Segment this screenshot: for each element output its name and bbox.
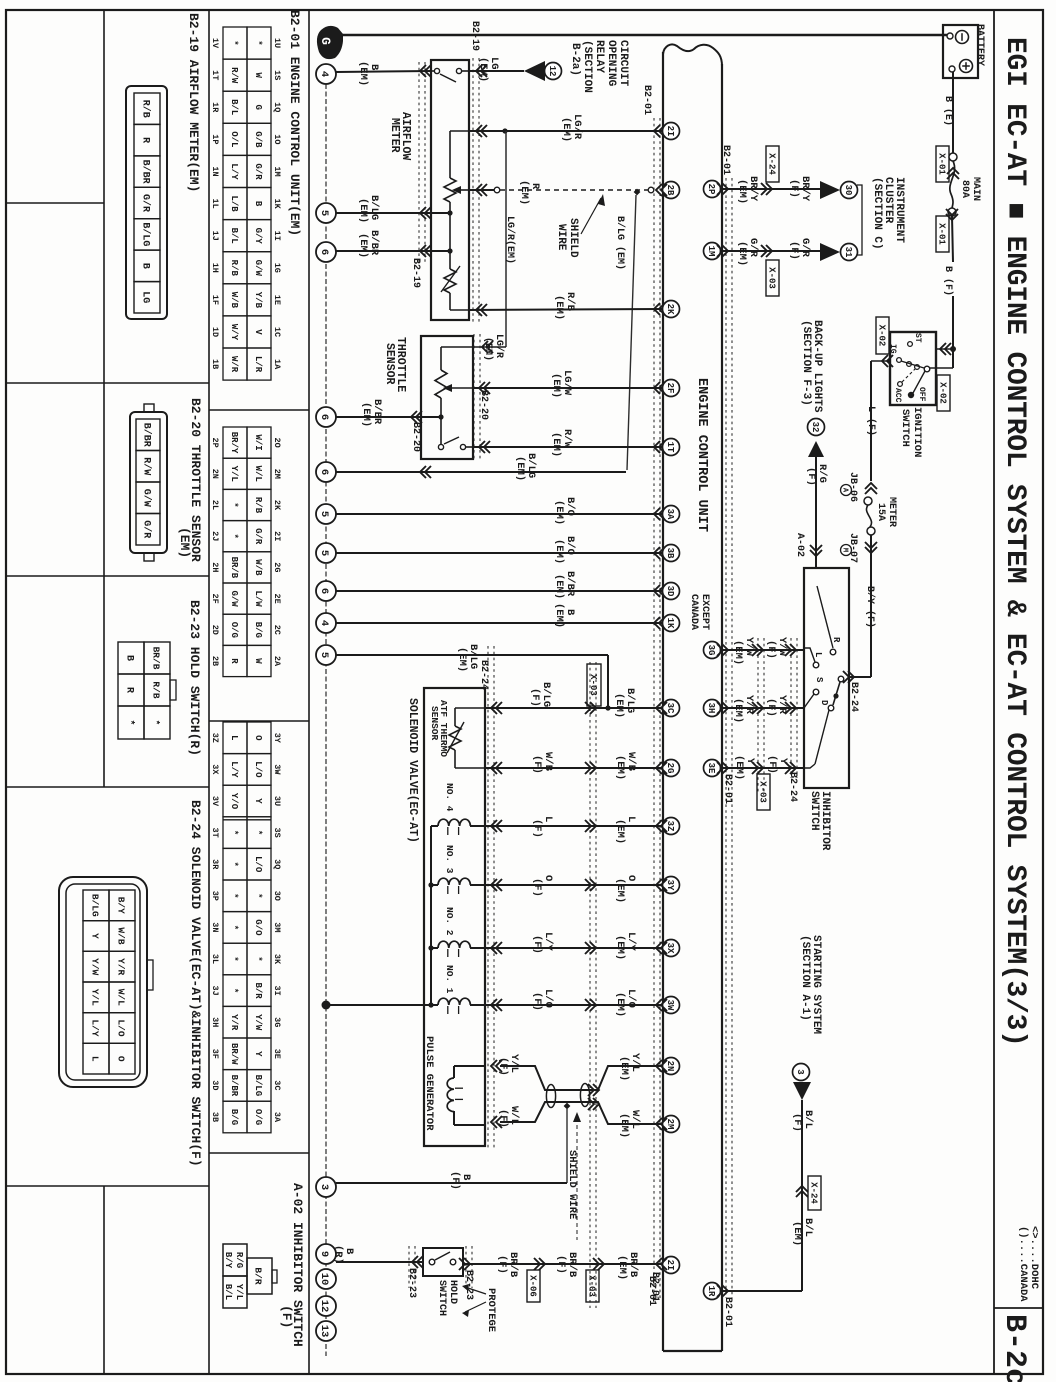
svg-text:5: 5 xyxy=(318,210,330,216)
svg-text:3F: 3F xyxy=(210,1049,220,1059)
svg-text:X-03: X-03 xyxy=(766,267,776,289)
wire R/W(EM) to pin 1T xyxy=(473,446,663,448)
svg-text:(F): (F) xyxy=(531,755,543,774)
svg-text:3K: 3K xyxy=(272,954,282,965)
ECU pin 2I xyxy=(663,1257,680,1274)
wire L/O to pin 3W xyxy=(485,1004,663,1006)
svg-text:B2-01: B2-01 xyxy=(722,1297,733,1327)
svg-text:W/Y: W/Y xyxy=(229,324,239,341)
airflow meter box xyxy=(431,60,469,320)
svg-text:R/W: R/W xyxy=(229,67,239,84)
svg-text:2I: 2I xyxy=(665,126,675,137)
node circle 5 at y514 xyxy=(316,504,336,524)
svg-text:BATTERY: BATTERY xyxy=(974,24,985,66)
svg-text:1L: 1L xyxy=(210,198,220,208)
mid column divider y1153 xyxy=(209,1152,309,1154)
svg-text:*: * xyxy=(253,956,263,961)
svg-text:X-03: X-03 xyxy=(757,781,767,803)
svg-text:RELAY: RELAY xyxy=(593,40,605,73)
svg-text:Y/R: Y/R xyxy=(116,958,127,975)
svg-text:X-24: X-24 xyxy=(766,153,776,175)
node circle 5 at y213 xyxy=(316,203,336,223)
svg-text:*: * xyxy=(253,830,263,835)
svg-text:B/R: B/R xyxy=(253,982,263,999)
svg-text:D: D xyxy=(819,700,829,706)
connector boundary B2-01 xyxy=(653,118,655,1298)
svg-text:L/O: L/O xyxy=(253,856,263,873)
svg-text:B/Y (F): B/Y (F) xyxy=(864,586,876,628)
svg-text:(EM): (EM) xyxy=(514,456,526,481)
svg-text:R: R xyxy=(139,137,150,143)
ECU pin 1R xyxy=(704,1283,721,1300)
wire BR/B to pin 2I via X-06 X-03 xyxy=(463,1263,663,1265)
svg-text:B/LG (EM): B/LG (EM) xyxy=(614,216,626,270)
svg-text:B2-23: B2-23 xyxy=(406,1268,417,1298)
svg-text:R/G: R/G xyxy=(234,1252,244,1268)
airflow meter switch xyxy=(434,68,439,73)
throttle sensor box xyxy=(421,336,473,459)
svg-text:L (F): L (F) xyxy=(865,406,877,436)
svg-text:B2-24 SOLENOID VALVE(EC-AT)&IN: B2-24 SOLENOID VALVE(EC-AT)&INHIBITOR SW… xyxy=(188,800,203,1167)
svg-text:(SECTION A-1): (SECTION A-1) xyxy=(799,935,811,1021)
svg-text:L/R: L/R xyxy=(253,356,263,373)
wire BR/Y pin 2P to instrument cluster xyxy=(722,188,820,190)
svg-text:1S: 1S xyxy=(272,70,282,80)
svg-text:L/Y: L/Y xyxy=(229,761,239,778)
svg-text:(EM): (EM) xyxy=(482,337,494,361)
ground G xyxy=(317,26,343,59)
svg-text:12: 12 xyxy=(318,1300,330,1313)
svg-text:X-03: X-03 xyxy=(586,1275,596,1297)
svg-text:R: R xyxy=(229,658,239,664)
svg-text:1M: 1M xyxy=(272,166,282,176)
svg-text:HOLD: HOLD xyxy=(447,1280,458,1304)
svg-text:*: * xyxy=(253,893,263,898)
shield drain wire to B(F) xyxy=(566,1109,568,1183)
svg-text:B/G: B/G xyxy=(253,622,263,638)
svg-text:O/G: O/G xyxy=(253,1109,263,1125)
wire G/R pin 1M to instrument cluster xyxy=(722,250,820,252)
svg-text:O/L: O/L xyxy=(229,131,239,147)
wire R/B(EM) to pin 2K xyxy=(469,309,663,310)
svg-text:(EM): (EM) xyxy=(736,241,748,266)
wire B(F) from node 3 xyxy=(336,1182,567,1184)
ATF thermo sensor xyxy=(449,726,461,750)
ECU pin 3D xyxy=(663,583,680,600)
svg-text:G/R: G/R xyxy=(140,520,152,538)
svg-text:NO. 1: NO. 1 xyxy=(444,965,455,994)
svg-text:NO. 3: NO. 3 xyxy=(444,845,455,874)
svg-text:ACC: ACC xyxy=(893,388,902,403)
connector X-01 upper xyxy=(936,146,949,182)
arrow 32 back-up lights xyxy=(808,419,825,436)
pulse generator xyxy=(454,1065,485,1067)
svg-text:2F: 2F xyxy=(210,593,220,603)
connector boundary B2-01 right side xyxy=(725,178,727,1298)
svg-text:W/R: W/R xyxy=(229,356,239,373)
svg-text:(F): (F) xyxy=(531,992,543,1011)
svg-text:3D: 3D xyxy=(665,586,675,597)
svg-text:1K: 1K xyxy=(665,618,675,629)
svg-text:Y/W: Y/W xyxy=(253,1014,263,1031)
svg-text:(F): (F) xyxy=(788,241,800,260)
svg-text:B2-01 ENGINE CONTROL UNIT(EM): B2-01 ENGINE CONTROL UNIT(EM) xyxy=(287,10,302,236)
svg-text:G/W: G/W xyxy=(229,590,239,607)
svg-text:(EM): (EM) xyxy=(550,432,562,457)
svg-text:2O: 2O xyxy=(272,437,282,447)
svg-text:3: 3 xyxy=(318,1184,330,1190)
svg-text:(EM): (EM) xyxy=(614,755,626,780)
node circle 5 at y655 xyxy=(316,645,336,665)
svg-text:L: L xyxy=(813,652,823,657)
wire B/LG(EM) pin5 to airflow meter xyxy=(336,212,450,214)
svg-text:B/L: B/L xyxy=(223,1284,233,1300)
ECU pin 3A xyxy=(663,506,680,523)
svg-text:L/Y: L/Y xyxy=(229,163,239,180)
svg-text:1I: 1I xyxy=(272,231,282,241)
svg-text:2P: 2P xyxy=(706,184,716,195)
svg-text:13: 13 xyxy=(318,1325,330,1338)
svg-text:R/B: R/B xyxy=(139,100,151,118)
svg-text:B/BR: B/BR xyxy=(139,160,151,184)
connector A-02 inhibitor switch xyxy=(223,1244,247,1276)
svg-text:X-24: X-24 xyxy=(808,1182,818,1204)
ECU pin 3H xyxy=(704,700,721,717)
connector X-01 lower xyxy=(948,208,956,216)
connector boundary X-03 xyxy=(589,662,591,1308)
svg-text:(F): (F) xyxy=(765,640,777,659)
svg-text:B: B xyxy=(139,263,150,269)
hold switch xyxy=(423,1248,463,1276)
ECU pin 1T xyxy=(663,439,680,456)
solenoid coil NO.4 xyxy=(431,825,438,827)
pin table B2-01 3x pins xyxy=(223,722,247,754)
svg-text:L/W: L/W xyxy=(253,590,263,607)
connector boundary B2-19 left xyxy=(418,62,420,262)
svg-text:R: R xyxy=(831,637,841,643)
svg-text:Y/B: Y/B xyxy=(253,292,263,309)
svg-text:(EM): (EM) xyxy=(550,373,562,398)
node circle 3 at y1187 xyxy=(316,1177,336,1197)
left column divider y383 xyxy=(6,382,209,384)
svg-text:6: 6 xyxy=(318,469,330,475)
svg-text:9: 9 xyxy=(318,1251,330,1257)
svg-text:O/G: O/G xyxy=(229,622,239,638)
svg-text:(SECTION C): (SECTION C) xyxy=(871,177,883,250)
svg-text:12: 12 xyxy=(547,66,557,77)
svg-text:W: W xyxy=(253,658,263,664)
left column divider y576 xyxy=(6,575,209,577)
svg-text:3U: 3U xyxy=(272,796,282,806)
svg-text:*: * xyxy=(229,533,239,538)
svg-text:2H: 2H xyxy=(210,562,220,572)
svg-text:Y/W: Y/W xyxy=(90,958,101,975)
svg-text:(EM): (EM) xyxy=(618,1113,630,1138)
engine control unit bus xyxy=(662,52,664,1351)
connector boundary B2-23 left xyxy=(408,1246,410,1288)
svg-text:1T: 1T xyxy=(665,442,675,453)
node circle 9 at y1254 xyxy=(316,1244,336,1264)
node circle 6 at y417 xyxy=(316,407,336,427)
svg-text:B-2c: B-2c xyxy=(997,1314,1031,1382)
svg-text:30: 30 xyxy=(843,185,853,196)
svg-text:(EM): (EM) xyxy=(614,878,626,903)
svg-text:2D: 2D xyxy=(210,625,220,635)
svg-text:(EM): (EM) xyxy=(618,1056,630,1081)
svg-text:B/LG: B/LG xyxy=(253,1075,263,1097)
svg-text:B/BR: B/BR xyxy=(140,423,152,447)
svg-text:L/O: L/O xyxy=(253,761,263,778)
wire B/O(EM) to pin 3B xyxy=(336,552,663,554)
svg-text:3Z: 3Z xyxy=(665,821,675,832)
svg-text:31: 31 xyxy=(843,247,853,258)
svg-text:IGNITION: IGNITION xyxy=(911,407,923,457)
wire LG(EM) to circuit opening relay xyxy=(469,70,524,72)
svg-text:1A: 1A xyxy=(272,359,282,370)
ECU pin 2M xyxy=(663,1116,680,1133)
svg-text:BR/W: BR/W xyxy=(229,1043,239,1065)
left column divider y1186 xyxy=(6,1185,209,1187)
svg-text:2F: 2F xyxy=(665,383,675,394)
svg-text:B/L: B/L xyxy=(229,228,239,244)
svg-text:B2-24: B2-24 xyxy=(478,660,489,690)
svg-text:G/O: G/O xyxy=(253,919,263,936)
svg-text:3G: 3G xyxy=(706,645,716,656)
svg-text:*: * xyxy=(123,719,135,725)
svg-text:G/W: G/W xyxy=(140,489,152,507)
svg-text:BR/B: BR/B xyxy=(229,557,239,579)
ECU pin 3W xyxy=(663,997,680,1014)
svg-text:(F): (F) xyxy=(555,1255,567,1274)
arrow 12 circuit opening relay xyxy=(524,61,545,81)
svg-text:SHIELD WIRE: SHIELD WIRE xyxy=(566,1150,578,1219)
svg-text:(R): (R) xyxy=(332,1245,344,1264)
svg-text:ST: ST xyxy=(913,333,922,343)
svg-text:(EM): (EM) xyxy=(477,57,489,82)
svg-text:B2-24: B2-24 xyxy=(787,772,798,802)
svg-text:G/R: G/R xyxy=(253,163,263,180)
connector B2-24 solenoid valve xyxy=(59,877,147,1087)
svg-text:(EM): (EM) xyxy=(553,574,565,599)
ECU pin 3B xyxy=(663,545,680,562)
svg-text:1N: 1N xyxy=(210,166,220,176)
pin table B2-01 2x pins xyxy=(223,427,247,458)
svg-text:X-03: X-03 xyxy=(588,674,598,696)
svg-text:3: 3 xyxy=(795,1069,805,1074)
svg-text:2A: 2A xyxy=(272,656,282,667)
inhibitor switch xyxy=(804,568,849,788)
fuse MAIN 80A xyxy=(950,161,955,208)
ECU pin 2I xyxy=(663,123,680,140)
svg-text:(F): (F) xyxy=(765,698,777,717)
svg-text:(EM): (EM) xyxy=(177,527,192,558)
svg-text:3C: 3C xyxy=(272,1080,282,1090)
pin table B2-01 1x pins xyxy=(223,27,247,59)
wire B/O(EM) to pin 3A xyxy=(336,513,663,515)
node circle 4 at y623 xyxy=(316,613,336,633)
connector boundary B2-19 right xyxy=(472,58,474,322)
wire B(EM) pin4 to airflow meter xyxy=(336,71,431,72)
svg-text:(F): (F) xyxy=(449,1171,461,1190)
svg-text:(EM): (EM) xyxy=(553,603,565,628)
wire B/Y(F) to inhibitor switch xyxy=(870,535,872,677)
svg-text:BR/Y: BR/Y xyxy=(229,432,239,454)
svg-text:3Z: 3Z xyxy=(210,733,220,743)
svg-text:1C: 1C xyxy=(272,327,282,337)
svg-text:3T: 3T xyxy=(210,827,220,837)
svg-text:3I: 3I xyxy=(272,985,282,995)
svg-text:(F): (F) xyxy=(805,467,817,486)
svg-text:BR/B: BR/B xyxy=(151,647,162,670)
left circles column line xyxy=(325,84,327,1356)
svg-text:PULSE GENERATOR: PULSE GENERATOR xyxy=(423,1036,435,1131)
throttle sensor potentiometer xyxy=(440,347,442,370)
svg-text:EXCEPT: EXCEPT xyxy=(699,594,710,630)
svg-text:3G: 3G xyxy=(272,1017,282,1027)
battery xyxy=(943,25,978,78)
svg-text:B/Y: B/Y xyxy=(116,897,127,914)
svg-text:EGI EC-AT ■ ENGINE CONTROL SYS: EGI EC-AT ■ ENGINE CONTROL SYSTEM & EC-A… xyxy=(999,37,1030,1047)
bracket instrument cluster xyxy=(857,185,862,255)
svg-text:Y/L: Y/L xyxy=(90,989,101,1006)
svg-text:O: O xyxy=(253,735,263,741)
svg-text:3W: 3W xyxy=(272,764,282,775)
svg-text:2N: 2N xyxy=(210,469,220,479)
svg-text:(F): (F) xyxy=(766,755,778,774)
svg-text:1F: 1F xyxy=(210,295,220,305)
wire ignition switch L(F) xyxy=(882,355,888,367)
svg-text:*: * xyxy=(229,40,239,45)
svg-text:4: 4 xyxy=(318,71,330,77)
svg-text:B2-01: B2-01 xyxy=(646,1276,657,1306)
svg-text:X-02: X-02 xyxy=(937,382,947,404)
svg-text:(F): (F) xyxy=(496,1255,508,1274)
wire LG/R(EM) vertical to throttle sensor xyxy=(505,131,507,347)
svg-text:*: * xyxy=(229,893,239,898)
wire Y pin 3E to inhibitor switch xyxy=(722,767,804,769)
svg-text:1Q: 1Q xyxy=(272,102,282,112)
svg-text:Y: Y xyxy=(253,1051,263,1057)
svg-text:(EM): (EM) xyxy=(614,935,626,960)
left column divider y787 xyxy=(6,786,209,788)
svg-text:(EM): (EM) xyxy=(553,500,565,525)
svg-text:G/R: G/R xyxy=(253,528,263,545)
svg-text:W/L: W/L xyxy=(116,989,127,1006)
svg-text:2K: 2K xyxy=(665,304,675,315)
svg-text:3E: 3E xyxy=(272,1049,282,1059)
svg-text:6: 6 xyxy=(318,414,330,420)
svg-text:3Q: 3Q xyxy=(272,859,282,869)
svg-text:2M: 2M xyxy=(272,469,282,479)
svg-text:B/G: B/G xyxy=(229,1109,239,1125)
svg-text:(EM): (EM) xyxy=(791,1221,803,1246)
svg-text:B/Y: B/Y xyxy=(223,1252,233,1269)
svg-text:3D: 3D xyxy=(210,1080,220,1090)
svg-text:2G: 2G xyxy=(665,763,675,774)
wire R(EM) shielded to pin 2B xyxy=(469,189,494,191)
wire B(R) from node 9 xyxy=(336,1261,423,1263)
svg-text:(EM): (EM) xyxy=(553,539,565,564)
connector boundary B2-23 right xyxy=(465,1246,467,1288)
svg-text:1M: 1M xyxy=(706,246,716,257)
svg-text:1V: 1V xyxy=(210,38,220,49)
svg-text:(SECTION F-3): (SECTION F-3) xyxy=(800,320,812,406)
svg-text:3S: 3S xyxy=(272,827,282,837)
solenoid common wire xyxy=(430,826,432,1005)
wire W/L pulse generator to pin 2M xyxy=(491,1116,497,1128)
svg-text:B-2a): B-2a) xyxy=(569,43,581,76)
ECU pin 1M xyxy=(704,243,721,260)
svg-text:B: B xyxy=(253,201,263,207)
svg-text:B/LG: B/LG xyxy=(139,222,151,246)
svg-text:O: O xyxy=(116,1056,127,1062)
ECU pin 3Z xyxy=(663,818,680,835)
svg-text:G/W: G/W xyxy=(253,260,263,277)
svg-text:SENSOR: SENSOR xyxy=(383,343,396,385)
wire W/B to pin 2G xyxy=(485,767,663,769)
svg-text:WIRE: WIRE xyxy=(555,224,567,251)
svg-text:(EM): (EM) xyxy=(613,693,625,718)
svg-text:(F): (F) xyxy=(531,819,543,838)
connector boundary B2-24 inhibitor xyxy=(757,638,759,792)
svg-text:(EM): (EM) xyxy=(357,233,369,258)
svg-text:G: G xyxy=(318,37,333,45)
connector boundary inhibitor F side xyxy=(790,638,792,778)
svg-text:32: 32 xyxy=(810,422,820,433)
arrow 31 xyxy=(820,243,840,261)
svg-text:B2-01: B2-01 xyxy=(720,145,731,175)
wire B/BR(EM) to pin 3D xyxy=(336,590,663,592)
svg-text:MAIN: MAIN xyxy=(970,177,981,201)
svg-text:2E: 2E xyxy=(272,593,282,603)
ECU pin 1K xyxy=(663,615,680,632)
svg-text:Y: Y xyxy=(253,798,263,804)
svg-text:W/B: W/B xyxy=(229,292,239,309)
svg-text:80A: 80A xyxy=(959,180,970,198)
wire LG/W(EM) to pin 2F xyxy=(473,387,663,389)
svg-text:(F): (F) xyxy=(531,935,543,954)
svg-text:OPENING: OPENING xyxy=(605,40,617,87)
node circle 10 at y1279 xyxy=(316,1269,336,1289)
wire battery to ignition switch B(E)/B(F) xyxy=(952,72,954,153)
svg-text:2I: 2I xyxy=(272,531,282,541)
svg-text:G/R: G/R xyxy=(139,194,151,212)
svg-text:B/BR: B/BR xyxy=(229,1075,239,1097)
svg-text:B2-20: B2-20 xyxy=(478,390,489,420)
svg-text:2K: 2K xyxy=(272,500,282,511)
svg-text:10: 10 xyxy=(318,1273,330,1286)
svg-text:B/LG: B/LG xyxy=(90,894,101,917)
connector boundary B2-24 solenoid xyxy=(487,646,489,1148)
svg-text:METER: METER xyxy=(886,497,897,527)
wire O to pin 3Y xyxy=(485,884,663,886)
node circle 5 at y553 xyxy=(316,543,336,563)
svg-text:1T: 1T xyxy=(210,70,220,80)
node circle 6 at y472 xyxy=(316,462,336,482)
svg-text:A-02: A-02 xyxy=(794,533,805,557)
svg-text:1P: 1P xyxy=(210,134,220,144)
connector boundary B2-20 xyxy=(473,334,475,460)
svg-text:B2-19 AIRFLOW METER(EM): B2-19 AIRFLOW METER(EM) xyxy=(186,13,201,192)
ECU pin 2G xyxy=(663,760,680,777)
svg-text:L/O: L/O xyxy=(116,1019,127,1036)
svg-text:5: 5 xyxy=(318,550,330,556)
svg-text:1B: 1B xyxy=(210,359,220,369)
arrow 30 xyxy=(820,181,840,199)
wire R/G(F) to inhibitor switch A-02 xyxy=(815,457,817,568)
svg-text:(SECTION: (SECTION xyxy=(581,40,593,93)
svg-text:G/Y: G/Y xyxy=(253,228,263,245)
